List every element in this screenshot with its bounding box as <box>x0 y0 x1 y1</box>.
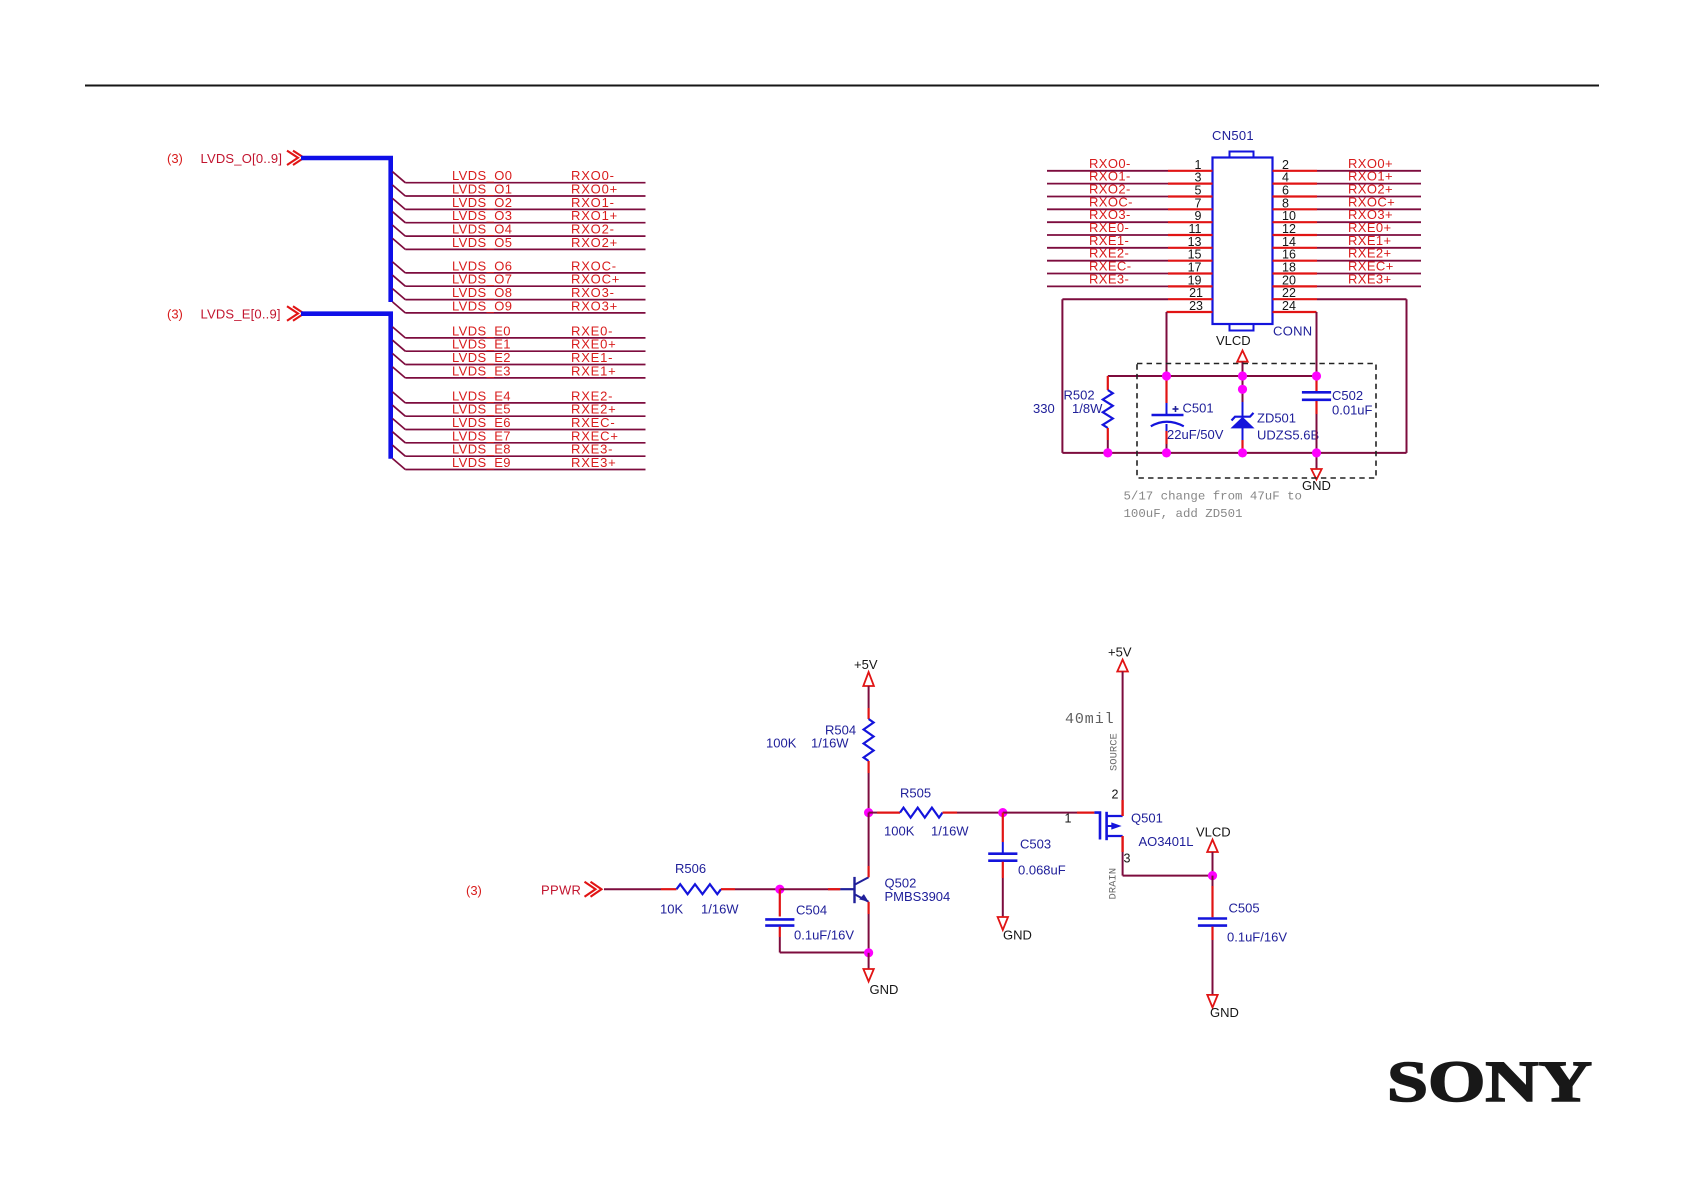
CN501 pin 23 and wire to VLCD rail <box>1167 299 1213 376</box>
wire LVDS_E5 / net RXE2+ <box>393 402 646 417</box>
ground GND at C505 <box>1207 995 1239 1020</box>
svg-text:100K: 100K <box>766 736 797 751</box>
wire LVDS_O7 / net RXOC+ <box>393 272 646 287</box>
CN501 pin 18, net RXEC+ <box>1273 259 1422 275</box>
svg-text:4: 4 <box>1282 171 1289 185</box>
svg-text:LVDS_O9: LVDS_O9 <box>452 298 512 313</box>
svg-text:100uF, add ZD501: 100uF, add ZD501 <box>1124 507 1243 521</box>
bus LVDS_O[0..9] <box>167 151 391 302</box>
svg-text:18: 18 <box>1282 261 1296 275</box>
CN501 pin 14, net RXE1+ <box>1273 233 1422 249</box>
CN501 pin 13, net RXE1- <box>1047 233 1213 249</box>
svg-text:C505: C505 <box>1229 901 1260 916</box>
svg-text:PMBS3904: PMBS3904 <box>885 889 951 904</box>
svg-text:0.1uF/16V: 0.1uF/16V <box>794 928 854 943</box>
wire LVDS_O0 / net RXO0- <box>393 168 646 183</box>
junction R505 / C503 / Q501 gate <box>998 808 1007 817</box>
CN501 pin 7, net RXOC- <box>1047 194 1213 210</box>
svg-text:GND: GND <box>1003 928 1032 943</box>
svg-text:C502: C502 <box>1332 388 1363 403</box>
svg-text:100K: 100K <box>884 824 915 839</box>
svg-text:17: 17 <box>1188 261 1202 275</box>
wire LVDS_O1 / net RXO0+ <box>393 182 646 197</box>
wire GND rail (bottom horizontal) <box>1062 452 1406 454</box>
svg-text:RXE3-: RXE3- <box>1089 271 1129 286</box>
junction Q502 emitter / C504 / GND <box>864 948 873 957</box>
CN501 pin 15, net RXE2- <box>1047 246 1213 262</box>
wire LVDS_O5 / net RXO2+ <box>393 235 646 250</box>
wire Q501 drain to VLCD node <box>1108 852 1213 900</box>
svg-text:40mil: 40mil <box>1065 711 1115 728</box>
junction on ZD501 branch <box>1238 385 1247 394</box>
CN501 pin 8, net RXOC+ <box>1273 194 1422 210</box>
wire LVDS_O6 / net RXOC- <box>393 258 646 273</box>
CN501 pin 16, net RXE2+ <box>1273 246 1422 262</box>
svg-text:PPWR: PPWR <box>541 883 581 898</box>
wire LVDS_O3 / net RXO1+ <box>393 208 646 223</box>
junction GND rail / ZD501 <box>1238 448 1247 457</box>
svg-text:2: 2 <box>1112 788 1119 802</box>
svg-text:Q501: Q501 <box>1131 811 1163 826</box>
svg-text:0.068uF: 0.068uF <box>1018 863 1066 878</box>
svg-text:1/8W: 1/8W <box>1072 401 1103 416</box>
wire LVDS_O2 / net RXO1- <box>393 195 646 210</box>
svg-text:10K: 10K <box>660 902 683 917</box>
resistor R505 100K 1/16W <box>869 786 1003 839</box>
wire LVDS_E9 / net RXE3+ <box>393 455 646 470</box>
wire LVDS_E7 / net RXEC+ <box>393 428 646 443</box>
resistor R502 330 1/8W <box>1033 376 1113 453</box>
transistor Q501 AO3401L (P-ch MOSFET) <box>1094 788 1193 866</box>
CN501 pin 2, net RXO0+ <box>1273 156 1422 172</box>
ground GND at C502 <box>1302 453 1331 493</box>
wire LVDS_O9 / net RXO3+ <box>393 298 646 313</box>
svg-text:(3): (3) <box>167 307 183 322</box>
CN501 pin 11, net RXE0- <box>1047 220 1213 236</box>
svg-text:22uF/50V: 22uF/50V <box>1167 427 1224 442</box>
svg-text:0.01uF: 0.01uF <box>1332 403 1373 418</box>
svg-text:LVDS_E9: LVDS_E9 <box>452 455 511 470</box>
svg-text:RXE3+: RXE3+ <box>1348 271 1392 286</box>
CN501 pin 5, net RXO2- <box>1047 182 1213 198</box>
wire LVDS_E2 / net RXE1- <box>393 350 646 365</box>
svg-text:1/16W: 1/16W <box>931 824 969 839</box>
junction GND rail / R502 <box>1103 448 1112 457</box>
capacitor C503 0.068uF <box>988 813 1066 917</box>
ground GND at Q502 <box>863 953 898 997</box>
connector CN501 <box>1212 128 1312 339</box>
svg-text:UDZS5.6B: UDZS5.6B <box>1257 428 1319 443</box>
capacitor C502 0.01uF <box>1302 376 1373 453</box>
svg-text:CN501: CN501 <box>1212 128 1254 143</box>
svg-text:1: 1 <box>1065 812 1072 826</box>
svg-text:GND: GND <box>1210 1005 1239 1020</box>
CN501 pin 20, net RXE3+ <box>1273 271 1422 287</box>
wire LVDS_E3 / net RXE1+ <box>393 363 646 378</box>
CN501 pin 6, net RXO2+ <box>1273 182 1422 198</box>
wire LVDS_E1 / net RXE0+ <box>393 337 646 352</box>
svg-text:C504: C504 <box>796 903 827 918</box>
svg-text:RXE1+: RXE1+ <box>571 363 617 378</box>
capacitor C504 0.1uF/16V <box>765 889 868 952</box>
CN501 pin 19, net RXE3- <box>1047 271 1213 287</box>
svg-text:1/16W: 1/16W <box>701 902 739 917</box>
CN501 pin 9, net RXO3- <box>1047 207 1213 223</box>
svg-text:14: 14 <box>1282 235 1296 249</box>
CN501 pin 22 and wire to GND rail <box>1273 286 1407 453</box>
wire LVDS_E0 / net RXE0- <box>393 323 646 338</box>
svg-text:3: 3 <box>1124 852 1131 866</box>
zener diode ZD501 UDZS5.6B <box>1232 376 1320 453</box>
junction R506 / C504 / Q502 base <box>775 885 784 894</box>
ECO dashed box <box>1137 364 1376 479</box>
wire Q502 base <box>780 888 841 890</box>
CN501 pin 12, net RXE0+ <box>1273 220 1422 236</box>
svg-text:ZD501: ZD501 <box>1257 411 1296 426</box>
power +5V at Q501 source <box>1065 645 1132 801</box>
transistor Q502 PMBS3904 (NPN) <box>840 813 950 953</box>
svg-text:VLCD: VLCD <box>1216 333 1251 348</box>
CN501 pin 4, net RXO1+ <box>1273 169 1422 185</box>
CN501 pin 10, net RXO3+ <box>1273 207 1422 223</box>
svg-text:8: 8 <box>1282 196 1289 210</box>
svg-text:RXE3+: RXE3+ <box>571 455 617 470</box>
svg-text:GND: GND <box>870 982 899 997</box>
wire VLCD rail (top horizontal) <box>1108 375 1317 377</box>
wire LVDS_E4 / net RXE2- <box>393 388 646 403</box>
svg-text:LVDS_O[0..9]: LVDS_O[0..9] <box>201 151 283 166</box>
resistor R506 10K 1/16W <box>660 861 780 917</box>
svg-text:23: 23 <box>1189 299 1203 313</box>
svg-text:AO3401L: AO3401L <box>1139 834 1194 849</box>
svg-text:LVDS_E3: LVDS_E3 <box>452 363 511 378</box>
bus LVDS_E[0..9] <box>167 306 391 458</box>
capacitor C501 22uF/50V (polarized) <box>1151 376 1224 453</box>
port PPWR <box>466 882 661 898</box>
junction GND rail / C501 <box>1162 448 1171 457</box>
junction VLCD rail / C501 (pin23) <box>1162 371 1171 380</box>
svg-text:DRAIN: DRAIN <box>1108 868 1120 900</box>
wire Q501 gate, pin 1 <box>1003 812 1095 826</box>
CN501 pin 24 and wire to VLCD rail <box>1273 299 1317 376</box>
svg-text:+5V: +5V <box>854 657 878 672</box>
svg-text:R505: R505 <box>900 786 931 801</box>
svg-text:SOURCE: SOURCE <box>1109 733 1121 771</box>
junction GND rail / C502 <box>1312 448 1321 457</box>
wire LVDS_E8 / net RXE3- <box>393 442 646 457</box>
svg-text:24: 24 <box>1282 299 1296 313</box>
junction VLCD rail / C502 (pin24) <box>1312 371 1321 380</box>
power flag VLCD at CN501 <box>1216 333 1251 376</box>
svg-text:5/17 change from 47uF to: 5/17 change from 47uF to <box>1124 490 1302 504</box>
svg-text:RXO2+: RXO2+ <box>571 235 618 250</box>
junction R504 / R505 / Q502 collector <box>864 808 873 817</box>
svg-text:1/16W: 1/16W <box>811 736 849 751</box>
ground GND at C503 <box>998 917 1032 943</box>
svg-text:330: 330 <box>1033 401 1055 416</box>
svg-text:(3): (3) <box>466 883 482 898</box>
svg-text:7: 7 <box>1195 196 1202 210</box>
wire LVDS_O4 / net RXO2- <box>393 222 646 237</box>
resistor R504 100K 1/16W <box>766 708 874 813</box>
svg-text:VLCD: VLCD <box>1196 825 1231 840</box>
junction VLCD / C505 <box>1208 871 1217 880</box>
note: ECO text <box>1124 490 1302 522</box>
svg-text:0.1uF/16V: 0.1uF/16V <box>1227 930 1287 945</box>
CN501 pin 17, net RXEC- <box>1047 259 1213 275</box>
svg-text:13: 13 <box>1188 235 1202 249</box>
svg-text:C503: C503 <box>1020 837 1051 852</box>
svg-text:CONN: CONN <box>1273 324 1312 339</box>
svg-text:GND: GND <box>1302 478 1331 493</box>
svg-text:SONY: SONY <box>1387 1049 1592 1114</box>
svg-text:RXO3+: RXO3+ <box>571 298 618 313</box>
junction VLCD rail / ZD501 <box>1238 371 1247 380</box>
svg-text:3: 3 <box>1195 171 1202 185</box>
CN501 pin 3, net RXO1- <box>1047 169 1213 185</box>
CN501 pin 21 and wire to GND rail <box>1062 286 1212 453</box>
svg-text:+5V: +5V <box>1108 645 1132 660</box>
power +5V at R504 <box>854 657 878 708</box>
CN501 pin 1, net RXO0- <box>1047 156 1213 172</box>
svg-text:LVDS_O5: LVDS_O5 <box>452 235 512 250</box>
capacitor C505 0.1uF/16V <box>1198 876 1287 995</box>
svg-text:(3): (3) <box>167 151 183 166</box>
power flag VLCD at C505 <box>1196 825 1231 876</box>
wire LVDS_O8 / net RXO3- <box>393 285 646 300</box>
svg-text:LVDS_E[0..9]: LVDS_E[0..9] <box>201 307 281 322</box>
svg-text:C501: C501 <box>1183 401 1214 416</box>
svg-text:R506: R506 <box>675 861 706 876</box>
wire LVDS_E6 / net RXEC- <box>393 415 646 430</box>
